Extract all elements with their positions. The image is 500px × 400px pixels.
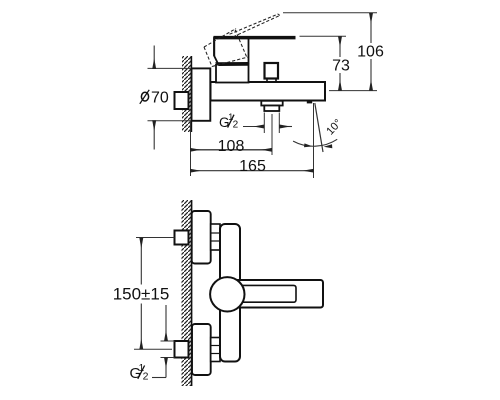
handle base block: [214, 38, 249, 65]
spout G1/2 ext lines: [263, 113, 265, 134]
dim 165: [191, 170, 313, 172]
handle dome circle: [210, 277, 244, 311]
svg-text:2: 2: [143, 371, 149, 383]
dim o70 bottom arrow: [153, 121, 155, 149]
ext line raised lever tip: [283, 12, 377, 14]
upper escutcheon: [192, 211, 211, 264]
svg-text:165: 165: [239, 158, 266, 175]
G1/2 leader: [152, 377, 166, 379]
lever (plan): [228, 280, 323, 308]
ext line lower connection centre: [134, 348, 172, 350]
upper supply square: [175, 231, 189, 245]
svg-text:108: 108: [218, 138, 245, 155]
10 degree slant line: [315, 103, 323, 152]
lower supply square: [175, 341, 189, 358]
label G1/2 (bottom view): [130, 363, 149, 382]
upper nut: [211, 224, 220, 250]
dim 73: [339, 38, 341, 90]
ext line escutcheon top: [148, 67, 192, 69]
shower outlet stub: [307, 101, 312, 104]
ext line escutcheon bottom: [148, 120, 192, 122]
svg-text:70: 70: [151, 89, 169, 106]
handle base bottom thick edge: [215, 62, 249, 66]
dashed raised lever: [230, 14, 280, 37]
lower escutcheon: [192, 324, 211, 375]
diverter knob neck: [267, 79, 276, 82]
ext line connection axis: [329, 90, 377, 92]
diverter knob: [265, 63, 279, 79]
lever slot: [242, 285, 296, 302]
spout flange: [261, 101, 282, 106]
dim 150+-15: [140, 239, 142, 349]
ext line lever top: [300, 35, 347, 37]
svg-text:73: 73: [332, 58, 350, 75]
body (vertical): [220, 224, 240, 362]
dashed raised handle base: [204, 29, 248, 67]
G1/2 arrows: [165, 305, 167, 340]
supply connection square: [175, 92, 189, 109]
wall face extension down: [190, 121, 192, 176]
outlet axis ext line: [313, 103, 315, 178]
spout centre ext line: [271, 114, 273, 155]
dim 106: [370, 14, 372, 89]
dim G1/2 arrows: [243, 126, 263, 128]
spout outlet: [264, 106, 279, 112]
ext line upper connection centre: [136, 237, 175, 239]
lever left edge: [213, 36, 215, 56]
dim o70 top arrow: [153, 46, 155, 68]
dim 108: [191, 149, 271, 151]
10 degree arc with arrows: [293, 139, 337, 146]
cartridge neck: [216, 65, 249, 83]
lever (solid, horizontal): [214, 36, 296, 40]
svg-text:106: 106: [357, 44, 384, 61]
lower nut: [211, 338, 220, 362]
wall (hatched): [182, 56, 192, 132]
G1/2 ext lines (lower connection): [161, 340, 175, 342]
escutcheon (side): [192, 68, 211, 120]
label G1/2 (top view): [219, 112, 239, 131]
body: [211, 82, 326, 101]
svg-text:2: 2: [233, 119, 239, 130]
label o70: [140, 89, 169, 106]
wall (hatched): [182, 200, 192, 386]
svg-text:150±15: 150±15: [113, 285, 170, 304]
